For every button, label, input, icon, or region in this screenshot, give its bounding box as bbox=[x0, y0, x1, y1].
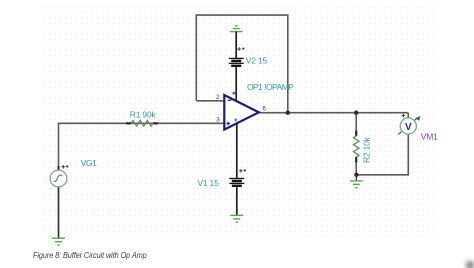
svg-text:2: 2 bbox=[216, 94, 220, 101]
ground below R2 bbox=[350, 175, 363, 188]
node junction output-feedback bbox=[286, 111, 290, 115]
wire output bbox=[259, 112, 409, 114]
wire VG1 to ground bbox=[58, 187, 60, 238]
svg-text:V: V bbox=[405, 122, 412, 133]
wire to voltmeter top bbox=[407, 113, 409, 118]
battery V1 bbox=[229, 169, 246, 215]
wire pin2 to op-amp bbox=[196, 100, 224, 102]
svg-text:R1 90k: R1 90k bbox=[130, 110, 157, 120]
ground below V1 bbox=[230, 215, 243, 222]
voltmeter VM1 bbox=[398, 114, 420, 135]
wire R2 branch bbox=[355, 113, 357, 136]
ground below VG1 bbox=[52, 238, 65, 245]
wire voltmeter bottom to R2 bottom bbox=[356, 134, 408, 175]
svg-text:R2 10k: R2 10k bbox=[362, 136, 372, 163]
source VG1 bbox=[50, 165, 68, 187]
svg-text:OP1 !OPAMP: OP1 !OPAMP bbox=[247, 82, 294, 92]
resistor R2 bbox=[353, 131, 359, 163]
svg-text:VG1: VG1 bbox=[81, 158, 97, 168]
caption bbox=[33, 251, 147, 260]
wire op-amp bottom supply bbox=[236, 123, 238, 178]
wire input VG1 to op-amp pin3 bbox=[59, 123, 225, 170]
svg-text:3: 3 bbox=[216, 117, 220, 124]
node junction R2 bottom bbox=[354, 173, 358, 177]
svg-text:V2 15: V2 15 bbox=[246, 56, 268, 66]
svg-text:6: 6 bbox=[262, 106, 266, 113]
battery V2 bbox=[229, 32, 245, 101]
ground top (above V2) bbox=[230, 26, 243, 32]
svg-text:VM1: VM1 bbox=[421, 132, 438, 142]
svg-text:V1 15: V1 15 bbox=[197, 178, 219, 188]
resistor R1 bbox=[126, 121, 158, 127]
wire feedback loop top bbox=[196, 15, 287, 113]
node junction R2 top bbox=[354, 111, 358, 115]
op-amp OP1 bbox=[224, 91, 258, 129]
